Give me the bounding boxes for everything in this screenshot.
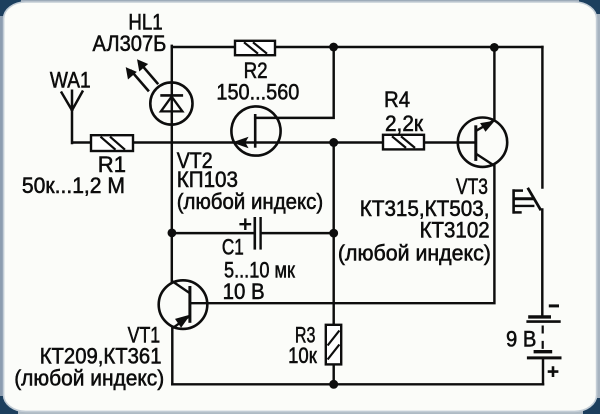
- wire: C1 left wire: [172, 232, 254, 234]
- label (любой индекс) VT2: [177, 189, 324, 214]
- label R4: [384, 89, 410, 113]
- label R3: [295, 324, 316, 348]
- label C1: [222, 236, 244, 261]
- label КТ315,КТ503,: [360, 196, 490, 221]
- svg-text:АЛ307Б: АЛ307Б: [93, 32, 167, 56]
- resistor R2: [235, 41, 275, 55]
- wire: middle vertical x=333.7 from main wire to R3 top: [332, 143, 334, 325]
- junction node: top rail / VT3 emitter: [490, 43, 499, 52]
- wire: VT1 base to VT3 collector link: [190, 166, 494, 303]
- transistor VT3 (NPN): [458, 118, 507, 167]
- label VT2: [177, 149, 213, 173]
- junction node: top rail / R2-VT2 drain: [329, 43, 338, 52]
- wire: VT3 emitter up to top rail junction: [493, 47, 495, 120]
- capacitor C1: [239, 217, 260, 250]
- label WA1: [50, 68, 91, 93]
- svg-text:WA1: WA1: [50, 68, 91, 93]
- svg-text:2,2к: 2,2к: [385, 112, 424, 137]
- junction node: R3 bottom / bottom rail: [329, 380, 338, 389]
- antenna WA1: [62, 91, 91, 143]
- transistor VT2 (JFET): [231, 106, 280, 155]
- wire: right branch vertical from top rail down to switch top contact: [541, 47, 543, 188]
- label КП103: [177, 167, 238, 192]
- svg-text:КТ3102: КТ3102: [420, 218, 490, 243]
- label 150...560: [216, 81, 299, 105]
- label (любой индекс) VT1: [14, 366, 164, 391]
- svg-text:150...560: 150...560: [216, 81, 299, 105]
- svg-text:КТ209,КТ361: КТ209,КТ361: [40, 345, 162, 369]
- label 10к: [288, 345, 317, 369]
- junction node: C1 right / middle vertical: [329, 229, 338, 238]
- svg-text:(любой индекс): (любой индекс): [338, 240, 491, 265]
- label 50к...1,2 М: [22, 173, 125, 199]
- label 10 В: [223, 279, 265, 304]
- label VT3: [456, 175, 488, 199]
- wire: VT1 emitter down to bottom rail: [171, 328, 173, 384]
- wire: battery to switch segment: [541, 210, 543, 316]
- svg-text:(любой индекс): (любой индекс): [177, 189, 324, 214]
- wire: battery bottom lead to bottom rail: [542, 359, 544, 385]
- wire: VT2 drain bend to top rail junction: [255, 47, 334, 118]
- label КТ209,КТ361: [40, 345, 162, 369]
- svg-text:R4: R4: [384, 89, 410, 113]
- label 9 В: [506, 328, 536, 352]
- transistor VT1 (PNP): [159, 280, 208, 329]
- wire: R3 bottom to bottom rail: [332, 364, 334, 384]
- battery GB 9V: [526, 306, 561, 377]
- svg-text:10к: 10к: [288, 345, 317, 369]
- label VT1: [128, 324, 161, 348]
- label HL1: [128, 11, 162, 35]
- wire: top rail y=47 from LED line to right branch: [172, 46, 543, 48]
- junction node: main wire / middle vertical: [329, 138, 338, 147]
- wire: C1 right wire: [262, 232, 334, 234]
- label 2,2к: [385, 112, 424, 137]
- switch SB (push-button): [513, 188, 541, 214]
- wire: bottom rail y=384.3: [172, 383, 543, 385]
- junction node: C1 left / LED line: [168, 229, 177, 238]
- label R2: [244, 59, 268, 84]
- wire: LED/VT1 vertical line x=171.8 (top rail to VT1 collector): [171, 46, 173, 281]
- label R1: [98, 152, 126, 177]
- resistor R1: [91, 135, 133, 151]
- wire: main horizontal wire y=142.5 from R1 to R4 through VT2: [133, 141, 383, 143]
- svg-text:9 В: 9 В: [506, 328, 536, 352]
- svg-text:50к...1,2 М: 50к...1,2 М: [22, 173, 125, 199]
- svg-text:КП103: КП103: [177, 167, 238, 192]
- wire: main wire from R4 to VT3 base: [424, 141, 476, 143]
- label 5...10 мк: [224, 259, 295, 283]
- resistor R3 (vertical): [326, 325, 341, 365]
- resistor R4: [383, 135, 424, 150]
- svg-text:(любой индекс): (любой индекс): [14, 366, 164, 391]
- svg-text:10 В: 10 В: [223, 279, 265, 304]
- LED HL1: [126, 60, 192, 125]
- label (любой индекс) VT3: [338, 240, 491, 265]
- svg-text:C1: C1: [222, 236, 244, 261]
- label АЛ307Б: [93, 32, 167, 56]
- svg-text:HL1: HL1: [128, 11, 162, 35]
- label КТ3102: [420, 218, 490, 243]
